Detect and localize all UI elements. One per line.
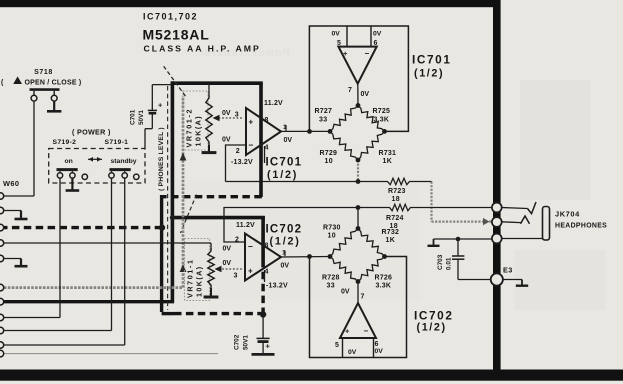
svg-text:33: 33 — [319, 117, 328, 124]
svg-text:−: − — [364, 327, 369, 336]
svg-text:1: 1 — [283, 124, 287, 131]
svg-text:6: 6 — [375, 341, 379, 348]
svg-text:1: 1 — [282, 250, 286, 257]
svg-text:50V1: 50V1 — [243, 335, 250, 350]
svg-text:2: 2 — [236, 148, 240, 155]
svg-text:HEADPHONES: HEADPHONES — [555, 223, 607, 230]
svg-text:−: − — [365, 49, 370, 58]
svg-text:C702: C702 — [234, 334, 241, 350]
svg-text:0V: 0V — [375, 348, 384, 355]
svg-text:VR701-1: VR701-1 — [186, 258, 195, 298]
svg-text:1K: 1K — [383, 158, 393, 165]
svg-text:8: 8 — [265, 117, 269, 124]
svg-text:0V: 0V — [223, 260, 232, 267]
svg-text:C703: C703 — [437, 254, 444, 270]
svg-text:IC701: IC701 — [412, 53, 451, 67]
svg-text:CLASS AA H.P. AMP: CLASS AA H.P. AMP — [144, 43, 261, 53]
svg-text:+: + — [249, 117, 254, 126]
svg-text:IC702: IC702 — [266, 223, 303, 235]
svg-text:0V: 0V — [348, 349, 357, 356]
svg-text:+: + — [343, 49, 348, 58]
svg-text:3: 3 — [234, 272, 238, 279]
svg-text:R723: R723 — [388, 188, 406, 195]
svg-text:0V: 0V — [284, 137, 293, 144]
svg-text:0V: 0V — [222, 136, 231, 143]
svg-text:−: − — [249, 140, 254, 150]
svg-text:2: 2 — [235, 237, 239, 244]
svg-text:0V: 0V — [223, 245, 232, 252]
svg-text:+: + — [248, 267, 253, 276]
svg-text:18: 18 — [392, 196, 401, 203]
svg-text:0V: 0V — [222, 110, 231, 117]
svg-text:10K(A): 10K(A) — [194, 115, 203, 147]
svg-text:S719-1: S719-1 — [105, 139, 129, 146]
svg-text:0V: 0V — [281, 262, 290, 269]
svg-text:5: 5 — [335, 342, 339, 349]
svg-text:10: 10 — [328, 232, 337, 239]
svg-text:4: 4 — [265, 268, 269, 275]
svg-text:(1/2): (1/2) — [270, 235, 301, 247]
svg-text:+: + — [266, 341, 271, 350]
svg-text:10K(A): 10K(A) — [195, 265, 204, 297]
svg-text:IC701: IC701 — [266, 157, 303, 169]
svg-text:R728: R728 — [322, 274, 340, 281]
svg-text:(1/2): (1/2) — [267, 169, 298, 181]
svg-text:3.3K: 3.3K — [376, 282, 392, 289]
svg-text:0V: 0V — [332, 31, 341, 38]
svg-text:0V: 0V — [341, 289, 350, 296]
svg-text:R731: R731 — [379, 150, 397, 157]
svg-text:−: − — [248, 242, 253, 252]
svg-text:1K: 1K — [386, 237, 396, 244]
svg-text:+: + — [345, 327, 350, 336]
svg-text:S719-2: S719-2 — [53, 139, 77, 146]
svg-text:OPEN / CLOSE ): OPEN / CLOSE ) — [25, 79, 82, 86]
svg-text:50V1: 50V1 — [138, 110, 145, 125]
svg-text:3.3K: 3.3K — [374, 117, 390, 124]
svg-text:11.2V: 11.2V — [236, 222, 255, 229]
svg-text:VR701-2: VR701-2 — [185, 108, 194, 148]
svg-text:7: 7 — [361, 293, 365, 300]
svg-text:33: 33 — [327, 282, 336, 289]
svg-text:0V: 0V — [373, 31, 382, 38]
svg-text:11.2V: 11.2V — [264, 100, 283, 107]
svg-text:M5218AL: M5218AL — [143, 27, 210, 43]
svg-text:0.01: 0.01 — [446, 257, 453, 270]
svg-text:(1/2): (1/2) — [417, 322, 447, 334]
svg-text:R730: R730 — [323, 224, 341, 231]
svg-text:E3: E3 — [503, 265, 513, 274]
svg-text:JK704: JK704 — [555, 209, 580, 218]
svg-text:R727: R727 — [315, 108, 333, 115]
svg-text:IC702: IC702 — [414, 309, 453, 323]
svg-text:W60: W60 — [3, 179, 19, 188]
svg-text:(1/2): (1/2) — [414, 68, 444, 80]
svg-text:IC701,702: IC701,702 — [143, 12, 198, 22]
svg-text:R725: R725 — [373, 108, 391, 115]
svg-text:R729: R729 — [320, 150, 338, 157]
svg-text:-13.2V: -13.2V — [266, 283, 288, 290]
svg-text:8: 8 — [265, 242, 269, 249]
svg-text:10: 10 — [325, 158, 334, 165]
svg-text:R726: R726 — [375, 274, 393, 281]
svg-text:standby: standby — [111, 158, 137, 165]
svg-text:on: on — [65, 158, 73, 165]
svg-text:-13.2V: -13.2V — [231, 159, 253, 166]
svg-text:S718: S718 — [34, 69, 53, 76]
svg-text:( PHONES LEVEL ): ( PHONES LEVEL ) — [158, 127, 165, 191]
svg-text:R724: R724 — [386, 215, 404, 222]
svg-text:7: 7 — [348, 87, 352, 94]
svg-text:0V: 0V — [361, 91, 370, 98]
svg-text:+: + — [158, 101, 163, 110]
svg-text:( POWER ): ( POWER ) — [72, 127, 111, 136]
svg-text:4: 4 — [265, 144, 269, 151]
svg-text:C701: C701 — [130, 109, 137, 125]
svg-text:3: 3 — [235, 111, 239, 118]
svg-text:R732: R732 — [382, 229, 400, 236]
